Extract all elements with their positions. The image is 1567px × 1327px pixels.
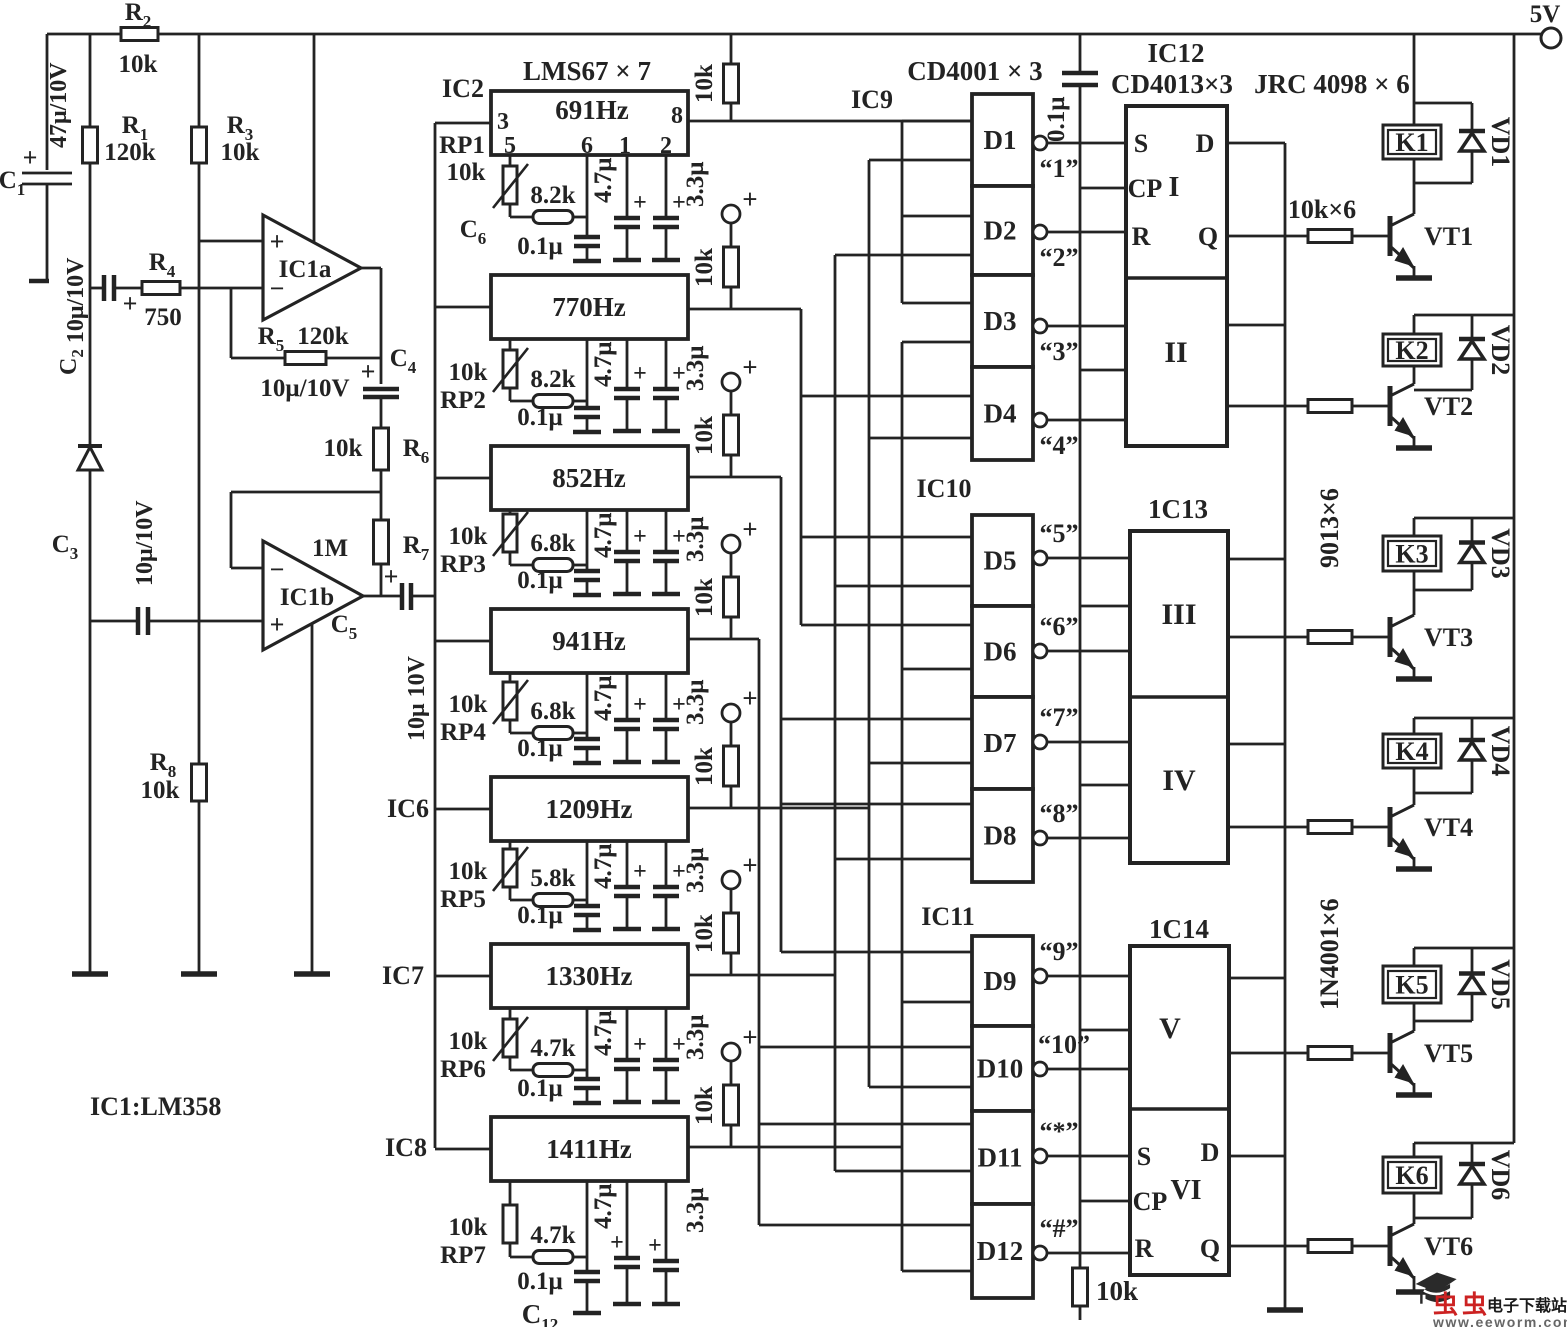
resistor 10k pullup 691 [730, 34, 733, 64]
relay K5 [1383, 966, 1441, 1003]
output circle D7 [1033, 735, 1047, 749]
wire K4 to collector [1413, 768, 1416, 805]
svg-text:VD3: VD3 [1486, 528, 1515, 579]
watermark logo [1416, 1273, 1457, 1304]
wire 4.7u to bar 770Hz [626, 398, 629, 431]
svg-text:10k: 10k [449, 523, 488, 550]
resistor R4 [142, 282, 180, 295]
wire emitter VT4 to ground [1413, 857, 1416, 869]
svg-text:10k: 10k [691, 578, 718, 617]
ground D chain [1267, 1307, 1303, 1313]
wire D9 output to flip-flop [1047, 975, 1130, 978]
svg-text:RP4: RP4 [440, 719, 486, 746]
svg-text:IC2: IC2 [442, 74, 484, 103]
svg-text:II: II [1164, 336, 1187, 369]
potentiometer RP3 [503, 514, 517, 552]
svg-text:IC1:LM358: IC1:LM358 [90, 1092, 221, 1121]
svg-text:10k: 10k [119, 51, 158, 78]
svg-text:CD4001 × 3: CD4001 × 3 [907, 56, 1042, 86]
svg-text:VT6: VT6 [1424, 1232, 1473, 1261]
wire right supply rail [1513, 34, 1516, 1143]
svg-text:VD5: VD5 [1486, 959, 1515, 1010]
wire D output stub y325 [1227, 324, 1285, 327]
svg-text:9013×6: 9013×6 [1315, 488, 1344, 568]
svg-text:www.eeworm.com: www.eeworm.com [1432, 1314, 1567, 1327]
wire R4 to IC1a inverting input [180, 287, 263, 290]
svg-text:+: + [633, 692, 647, 718]
svg-text:+: + [648, 1233, 662, 1259]
svg-text:3.3μ: 3.3μ [682, 1188, 709, 1233]
wire input B of D5 [835, 585, 972, 588]
svg-text:1330Hz: 1330Hz [546, 961, 633, 991]
wire C5 to tone bus [411, 595, 435, 598]
output circle D8 [1033, 831, 1047, 845]
svg-text:+: + [742, 514, 757, 544]
wire RP2 to resistor 8.2k [509, 388, 512, 401]
output circle D2 [1033, 225, 1047, 239]
svg-text:10k: 10k [691, 1086, 718, 1125]
svg-text:+: + [633, 1032, 647, 1058]
wire input A of D12 [759, 1224, 972, 1227]
wire input A of D7 [781, 718, 972, 721]
svg-text:+: + [633, 524, 647, 550]
wire 941Hz pin1 line [626, 673, 629, 720]
wire input A of D10 [759, 1046, 972, 1049]
wire 4.7u to bar 1209Hz [626, 896, 629, 929]
svg-text:“3”: “3” [1040, 337, 1079, 366]
resistor 10k pullup row 1147 [730, 1060, 733, 1085]
svg-text:“10”: “10” [1038, 1030, 1090, 1059]
wire top K3 [1414, 517, 1514, 520]
svg-text:0.1μ: 0.1μ [517, 567, 562, 594]
wire R6 R7 junction [380, 470, 383, 520]
wire IC1a supply from rail [313, 34, 316, 243]
op-amp IC1b [263, 541, 363, 650]
wire 1411Hz pin5 to pot [509, 1181, 512, 1205]
svg-text:D: D [1196, 129, 1215, 158]
wire top K1 [1414, 102, 1472, 105]
transistor VT4 [1388, 807, 1393, 847]
wire left rail x47 [46, 34, 49, 170]
NOR gate D1 [972, 94, 1033, 186]
svg-text:10k: 10k [449, 359, 488, 386]
terminal + pullup row 808 [722, 704, 740, 722]
svg-text:D3: D3 [984, 306, 1017, 336]
wire input B of D1 [869, 159, 972, 162]
wire 1330Hz pin2 line [665, 1008, 668, 1060]
svg-text:D8: D8 [984, 821, 1017, 851]
NOR gate D9 [972, 936, 1033, 1026]
wire D10 output to flip-flop [1047, 1068, 1130, 1071]
terminal + pullup row 1147 [722, 1043, 740, 1061]
capacitor 0.1u of 1209Hz [574, 904, 600, 909]
capacitor 0.1u of 1330Hz [574, 1077, 600, 1082]
output circle D6 [1033, 644, 1047, 658]
wire C4 to R6 [380, 397, 383, 428]
svg-text:+: + [384, 562, 399, 591]
NOR gate D2 [972, 186, 1033, 275]
potentiometer RP1 [503, 166, 517, 204]
svg-text:“7”: “7” [1040, 703, 1079, 732]
wire feedback R5 [230, 288, 233, 358]
wire input A of D3 [902, 302, 972, 305]
wire RP5 to resistor 5.8k [509, 887, 512, 900]
wire IC1b output to C5 [363, 595, 402, 598]
svg-text:D4: D4 [984, 399, 1017, 429]
svg-text:CD4013×3: CD4013×3 [1111, 69, 1233, 99]
diode VD6 [1471, 1143, 1474, 1218]
svg-text:10k: 10k [141, 777, 180, 804]
wire 4.7u to bar 852Hz [626, 561, 629, 594]
wire 1411Hz pin6 line [586, 1181, 589, 1272]
wire 1330Hz pin5 to pot [509, 1008, 512, 1019]
wire 3.3u to bar 1411Hz [665, 1270, 668, 1304]
wire input A of D11 [759, 1123, 972, 1126]
capacitor 0.1u of 1411Hz [574, 1270, 600, 1275]
svg-text:“9”: “9” [1040, 937, 1079, 966]
svg-text:IC1a: IC1a [279, 256, 332, 283]
svg-text:VT1: VT1 [1424, 222, 1473, 251]
NOR gate D10 [972, 1026, 1033, 1111]
tone decoder 770Hz IC [491, 275, 688, 339]
svg-text:D12: D12 [977, 1236, 1024, 1266]
diode VD4 [1471, 718, 1474, 793]
wire K1 to collector [1413, 159, 1416, 214]
wire bus 770 distribution [800, 309, 803, 625]
wire bus 941 distribution [758, 639, 761, 1225]
wire Q to base resistor VT5 [1229, 1052, 1308, 1055]
svg-text:0.1μ: 0.1μ [517, 233, 562, 260]
wire 0.1u to ground bar 1209Hz [586, 915, 589, 930]
wire input B of D8 [835, 858, 972, 861]
svg-text:8.2k: 8.2k [530, 366, 575, 393]
NOR gate D7 [972, 697, 1033, 789]
wire 1330 output row [688, 974, 835, 977]
wire D output stub y1156 [1229, 1155, 1285, 1158]
wire base resistor to VT4 [1352, 826, 1388, 829]
capacitor 0.1u CP [1062, 71, 1098, 76]
capacitor 0.1u of 941Hz [574, 737, 600, 742]
wire top K6 [1414, 1142, 1514, 1145]
resistor 8.2k [533, 211, 573, 224]
wire 691Hz pin5 to pot [509, 155, 512, 166]
svg-text:6.8k: 6.8k [530, 698, 575, 725]
capacitor 0.1u of 691Hz [574, 235, 600, 240]
svg-text:VI: VI [1170, 1175, 1201, 1206]
svg-text:−: − [270, 555, 285, 584]
svg-text:JRC 4098 × 6: JRC 4098 × 6 [1254, 69, 1410, 99]
svg-text:D11: D11 [977, 1143, 1022, 1173]
svg-text:5V: 5V [1530, 1, 1561, 28]
svg-text:4.7k: 4.7k [530, 1222, 575, 1249]
wire top K4 [1414, 717, 1514, 720]
NOR gate D4 [972, 367, 1033, 460]
wire Q to base resistor VT6 [1229, 1245, 1308, 1248]
wire 941Hz pin2 line [665, 673, 668, 720]
svg-text:Q: Q [1200, 1234, 1220, 1263]
svg-text:K2: K2 [1395, 336, 1428, 365]
wire D8 output to flip-flop [1047, 837, 1130, 840]
svg-text:770Hz: 770Hz [552, 292, 626, 322]
wire D7 output to flip-flop [1047, 741, 1130, 744]
wire input B of D9 [902, 1001, 972, 1004]
svg-text:D1: D1 [984, 125, 1017, 155]
svg-text:6.8k: 6.8k [530, 530, 575, 557]
wire 770Hz pin2 line [665, 339, 668, 389]
svg-text:K3: K3 [1395, 540, 1428, 569]
svg-text:“#”: “#” [1040, 1214, 1079, 1243]
svg-text:10k: 10k [324, 435, 363, 462]
svg-text:RP1: RP1 [439, 132, 485, 159]
output circle D11 [1033, 1149, 1047, 1163]
output circle D4 [1033, 413, 1047, 427]
wire 4.7u to bar 1330Hz [626, 1069, 629, 1102]
NOR gate D5 [972, 515, 1033, 606]
wire 4.7u to bar 691Hz [626, 227, 629, 260]
svg-text:IC11: IC11 [921, 902, 974, 931]
output circle D10 [1033, 1062, 1047, 1076]
wire K6 to collector [1413, 1193, 1416, 1224]
relay K1 [1383, 125, 1441, 159]
wire diode bottom VD2 [1414, 389, 1472, 392]
output circle D12 [1033, 1246, 1047, 1260]
wire input to 941Hz [435, 640, 491, 643]
svg-text:10μ/10V: 10μ/10V [260, 375, 349, 402]
diode VD1 [1471, 103, 1474, 183]
wire 852Hz pin5 to pot [509, 510, 512, 514]
wire tone input bus [434, 123, 437, 1148]
wire CP stub y1201 [1080, 1200, 1130, 1203]
terminal + pullup row 975 [722, 871, 740, 889]
wire input B of D3 [902, 341, 972, 344]
wire 6.8k to pin6 line [573, 732, 587, 735]
ground rail x199 [181, 971, 217, 977]
diode on left rail [78, 444, 102, 448]
wire rail x90 [89, 34, 92, 127]
svg-text:10k: 10k [1096, 1276, 1138, 1306]
potentiometer RP7 [503, 1205, 517, 1243]
wire 8.2k to pin6 line [573, 216, 587, 219]
wire K5 to collector [1413, 1003, 1416, 1031]
wire input B of D4 [869, 437, 972, 440]
svg-text:0.1μ: 0.1μ [517, 1268, 562, 1295]
capacitor C3 [136, 607, 141, 635]
wire D output stub y559 [1228, 558, 1285, 561]
svg-text:VT2: VT2 [1424, 392, 1473, 421]
wire 691Hz pin6 line [586, 155, 589, 237]
wire CP stub y370 [1080, 369, 1126, 372]
wire input to 1330Hz [435, 975, 491, 978]
wire 852Hz pin1 line [626, 510, 629, 552]
diode VD3 [1471, 518, 1474, 590]
capacitor 0.1u of 770Hz [574, 406, 600, 411]
svg-text:1C13: 1C13 [1148, 494, 1208, 524]
potentiometer RP4 [503, 682, 517, 720]
NOR gate D8 [972, 789, 1033, 882]
resistor 10k pullup row 808 [730, 721, 733, 746]
wire 1209Hz pin5 to pot [509, 841, 512, 849]
ground left rail [72, 971, 108, 977]
wire IC1b ground branch [311, 623, 314, 974]
svg-text:IC1b: IC1b [280, 584, 334, 611]
svg-text:D7: D7 [984, 728, 1017, 758]
svg-text:1M: 1M [312, 535, 348, 562]
resistor 10k base VT1 [1308, 230, 1352, 243]
svg-text:“4”: “4” [1040, 431, 1079, 460]
wire bus 1209 distribution [868, 160, 871, 1087]
wire bus 852 distribution [780, 477, 783, 952]
svg-text:+: + [123, 289, 138, 318]
svg-text:“8”: “8” [1040, 799, 1079, 828]
svg-text:+: + [742, 683, 757, 713]
svg-text:VT3: VT3 [1424, 623, 1473, 652]
svg-text:VD1: VD1 [1486, 117, 1515, 168]
svg-text:10k: 10k [449, 858, 488, 885]
wire Q to base resistor VT1 [1227, 235, 1308, 238]
svg-text:10k: 10k [449, 691, 488, 718]
wire emitter VT3 to ground [1413, 667, 1416, 679]
resistor 10k base VT4 [1308, 821, 1352, 834]
transistor VT3 [1388, 617, 1393, 657]
resistor 8.2k [533, 395, 573, 408]
wire emitter VT1 to ground [1413, 266, 1416, 278]
wire 770Hz pin1 line [626, 339, 629, 389]
ground VT6 [1396, 1289, 1432, 1295]
resistor R7 [374, 520, 389, 564]
wire 0.1u to ground bar 691Hz [586, 246, 589, 261]
wire diode bottom VD6 [1414, 1217, 1472, 1220]
wire 4.7u to bar 1411Hz [626, 1267, 629, 1304]
wire D5 output to flip-flop [1047, 557, 1130, 560]
svg-text:+: + [633, 859, 647, 885]
wire D2 output to flip-flop [1047, 231, 1126, 234]
wire diode bottom VD4 [1414, 792, 1472, 795]
svg-text:3.3μ: 3.3μ [682, 848, 709, 893]
wire Q to base resistor VT3 [1228, 636, 1308, 639]
resistor 10k base VT3 [1308, 631, 1352, 644]
svg-text:RP7: RP7 [440, 1242, 486, 1269]
wire C3 to IC1b noninverting input [148, 620, 263, 623]
svg-text:+: + [633, 361, 647, 387]
svg-text:S: S [1134, 129, 1148, 158]
svg-text:RP3: RP3 [440, 551, 486, 578]
flip-flop IC14 section V and VI [1130, 946, 1229, 1275]
svg-text:+: + [270, 227, 285, 256]
resistor 10k pullup row 309 [730, 222, 733, 247]
wire 3.3u to bar 1209Hz [665, 896, 668, 929]
svg-text:4.7μ: 4.7μ [590, 844, 617, 889]
resistor R2 [121, 28, 158, 41]
svg-text:K4: K4 [1395, 737, 1428, 766]
resistor 10k pullup row 639 [730, 552, 733, 577]
wire 1209Hz pin1 line [626, 841, 629, 887]
svg-text:IC7: IC7 [382, 961, 424, 990]
wire 691 output row [688, 120, 972, 123]
svg-text:“6”: “6” [1040, 612, 1079, 641]
transistor VT5 [1388, 1033, 1393, 1073]
wire 941Hz pin5 to pot [509, 673, 512, 682]
wire base resistor to VT3 [1352, 636, 1388, 639]
transistor VT2 [1388, 386, 1393, 426]
wire D output stub y978 [1229, 977, 1285, 980]
flip-flop IC13 section III and IV [1130, 531, 1228, 863]
svg-text:120k: 120k [297, 323, 349, 350]
resistor 10k base VT6 [1308, 1240, 1352, 1253]
svg-text:941Hz: 941Hz [552, 626, 626, 656]
wire D chain vertical [1284, 143, 1287, 1310]
svg-text:+: + [610, 1230, 624, 1256]
wire CP bus vertical [1079, 85, 1082, 1268]
resistor 6.8k [533, 559, 573, 572]
wire 1209Hz pin6 line [586, 841, 589, 906]
resistor 10k pullup row 477 [730, 390, 733, 415]
resistor R6 [374, 428, 389, 470]
wire 3.3u to bar 691Hz [665, 227, 668, 260]
wire rail x199 [198, 34, 201, 127]
wire 941Hz pin6 line [586, 673, 589, 739]
svg-text:4.7k: 4.7k [530, 1035, 575, 1062]
wire input A of D1 [902, 120, 972, 123]
svg-text:+: + [742, 1022, 757, 1052]
wire 0.1u to ground bar 770Hz [586, 417, 589, 432]
wire CP stub y785 [1080, 784, 1130, 787]
wire CP bus from rail [1079, 34, 1082, 73]
svg-text:8.2k: 8.2k [530, 182, 575, 209]
potentiometer RP6 [503, 1019, 517, 1057]
wire 852 output row [688, 476, 781, 479]
output circle D3 [1033, 319, 1047, 333]
terminal + pullup row 309 [722, 205, 740, 223]
svg-text:1N4001×6: 1N4001×6 [1315, 898, 1344, 1010]
output circle D9 [1033, 969, 1047, 983]
potentiometer RP5 [503, 849, 517, 887]
wire 770Hz pin6 line [586, 339, 589, 408]
NOR gate D12 [972, 1204, 1033, 1298]
wire input B of D12 [902, 1270, 972, 1273]
capacitor 0.1u of 852Hz [574, 569, 600, 574]
wire input to 1209Hz [435, 808, 491, 811]
svg-text:10k: 10k [221, 139, 260, 166]
svg-text:4.7μ: 4.7μ [590, 1184, 617, 1229]
wire to IC1a noninverting input [199, 240, 263, 243]
relay K3 [1383, 536, 1441, 571]
svg-text:10k: 10k [447, 159, 486, 186]
wire CP stub y1030 [1080, 1029, 1130, 1032]
svg-text:“1”: “1” [1040, 154, 1079, 183]
wire 5V top rail [47, 33, 121, 36]
svg-text:+: + [742, 850, 757, 880]
resistor R3 [192, 127, 207, 163]
wire CP stub y606 [1080, 605, 1130, 608]
wire diode bottom VD5 [1414, 1020, 1472, 1023]
wire input to 691Hz [435, 122, 491, 125]
svg-text:CP: CP [1128, 174, 1163, 203]
svg-text:D: D [1201, 1138, 1220, 1167]
output circle D5 [1033, 551, 1047, 565]
terminal + pullup row 477 [722, 373, 740, 391]
tone decoder 941Hz IC [491, 609, 688, 673]
wire D6 output to flip-flop [1047, 650, 1130, 653]
svg-text:120k: 120k [104, 139, 156, 166]
wire input A of D2 [902, 215, 972, 218]
wire Q to base resistor VT4 [1228, 826, 1308, 829]
wire input A of D9 [781, 951, 972, 954]
ground VT5 [1396, 1092, 1432, 1098]
svg-text:VD4: VD4 [1486, 726, 1515, 777]
wire input A of D5 [801, 536, 972, 539]
wire 691Hz pin1 line [626, 155, 629, 218]
svg-text:10k: 10k [691, 416, 718, 455]
